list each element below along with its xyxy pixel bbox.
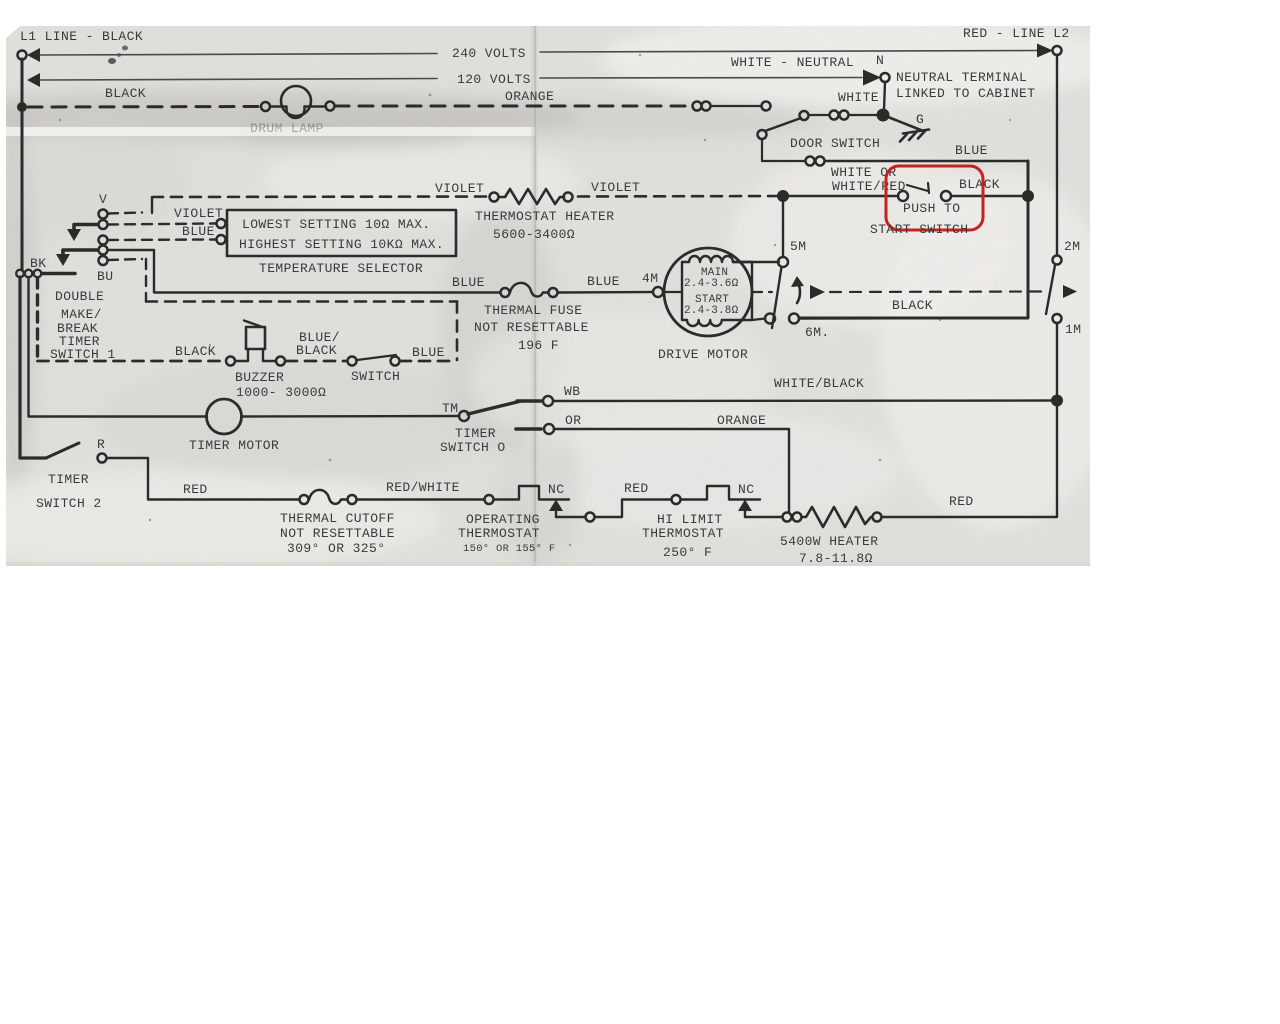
lamp switch contacts [693, 102, 771, 111]
svg-text:5400W HEATER: 5400W HEATER [780, 534, 878, 549]
svg-text:VIOLET: VIOLET [591, 180, 640, 195]
wire with NC step 2 [681, 486, 760, 500]
svg-text:2M: 2M [1064, 239, 1080, 254]
wire violet dashed right [578, 195, 777, 198]
selector contact V [99, 210, 108, 219]
svg-text:MAKE/: MAKE/ [61, 307, 102, 322]
label NEUTRAL TERMINAL LINKED TO CABINET [896, 70, 1035, 101]
wire heater to L2 rail [882, 323, 1057, 517]
ground G [883, 112, 929, 142]
node L2 terminal with arrow [1037, 44, 1062, 58]
contact WB stub [517, 396, 553, 406]
BK terminals [16, 270, 41, 278]
svg-text:RED: RED [183, 482, 208, 497]
wire dashed box top edge [146, 300, 457, 303]
wire dashed switch to box corner [400, 360, 457, 363]
svg-text:RED: RED [949, 494, 974, 509]
label HI LIMIT THERMOSTAT 250 F [642, 512, 724, 560]
node L1 terminal [18, 48, 41, 62]
svg-text:4M: 4M [642, 271, 658, 286]
svg-text:V: V [99, 192, 107, 207]
svg-text:HIGHEST SETTING 10KΩ MAX.: HIGHEST SETTING 10KΩ MAX. [239, 237, 444, 252]
wire black dashed to drum lamp [28, 105, 262, 109]
svg-text:BLACK: BLACK [892, 298, 933, 313]
SCHEMATIC [17, 26, 1070, 318]
svg-text:HI LIMIT: HI LIMIT [657, 512, 723, 527]
wire switch to blue rail [951, 195, 1022, 197]
svg-text:RED - LINE L2: RED - LINE L2 [963, 26, 1070, 41]
svg-text:5M: 5M [790, 239, 806, 254]
svg-text:NOT RESETTABLE: NOT RESETTABLE [280, 526, 395, 541]
label THERMAL CUTOFF NOT RESETTABLE 309 OR 325 [280, 511, 395, 556]
wire rail from BK circle 1 down [20, 277, 46, 458]
svg-text:WHITE - NEUTRAL: WHITE - NEUTRAL [731, 55, 854, 70]
wire dashed blue to selector box bottom [108, 238, 215, 241]
svg-text:WHITE/RED: WHITE/RED [832, 179, 906, 194]
thermal cutoff [300, 490, 357, 504]
wire dashed black motor line [753, 285, 1077, 299]
svg-text:L1 LINE - BLACK: L1 LINE - BLACK [20, 29, 143, 44]
wire main winding to 5M [733, 261, 779, 263]
wire orange dashed [335, 105, 692, 108]
contact OR stub [516, 424, 554, 434]
operating thermostat contact [485, 495, 494, 504]
selector contact 4 [99, 246, 108, 255]
temperature selector box [227, 210, 456, 256]
wire with NC step [494, 486, 569, 500]
wire V dashed to violet line [108, 198, 152, 214]
svg-text:250° F: 250° F [663, 545, 712, 560]
svg-text:TIMER: TIMER [48, 472, 89, 487]
svg-text:BLUE: BLUE [412, 345, 445, 360]
junction on L1 rail [17, 102, 27, 112]
svg-text:NC: NC [548, 482, 564, 497]
selector wiper arrow 1 [67, 225, 98, 242]
svg-text:RED/WHITE: RED/WHITE [386, 480, 460, 495]
svg-text:BU: BU [97, 269, 113, 284]
svg-text:ORANGE: ORANGE [717, 413, 766, 428]
thermal fuse [501, 283, 558, 297]
svg-text:OPERATING: OPERATING [466, 512, 540, 527]
contact 6M right [789, 314, 799, 324]
wire R to red line [107, 458, 299, 500]
junction WB rail [1051, 395, 1063, 407]
svg-text:NOT RESETTABLE: NOT RESETTABLE [474, 320, 589, 335]
wire to push-to-start [789, 195, 898, 197]
svg-text:BLACK: BLACK [959, 177, 1000, 192]
wire to heater [745, 516, 782, 518]
wire violet dashed top [152, 195, 488, 198]
svg-text:BLUE: BLUE [452, 275, 485, 290]
svg-text:BUZZER: BUZZER [235, 370, 284, 385]
red highlight box PUSH TO START [886, 166, 983, 230]
svg-text:THERMAL CUTOFF: THERMAL CUTOFF [280, 511, 395, 526]
hi limit left contact [586, 513, 595, 522]
label TIMER SWITCH 2 [36, 472, 102, 511]
svg-text:PUSH TO: PUSH TO [903, 201, 960, 216]
switch in dashed row [348, 355, 400, 366]
arrow 120V left [27, 73, 40, 87]
selector contact 3 [99, 236, 108, 245]
curved rotation arrow [791, 276, 804, 303]
wire hi limit step up [595, 500, 671, 518]
door switch arm [765, 118, 801, 131]
contact 2M [1053, 256, 1062, 265]
resistor 5400W heater [802, 507, 871, 527]
wire blue fuse to 4M [558, 291, 653, 294]
junction white/red node [777, 190, 789, 202]
junction blue rail [1022, 190, 1034, 202]
svg-text:THERMAL FUSE: THERMAL FUSE [484, 303, 582, 318]
heater right terminal [873, 513, 882, 522]
resistor thermostat heater [490, 189, 573, 204]
label THERMAL FUSE NOT RESETTABLE 196 F [474, 303, 589, 353]
svg-text:VIOLET: VIOLET [435, 181, 484, 196]
wire 240 volt line [40, 51, 1038, 56]
label MAIN 2.4-3.6 [684, 267, 739, 290]
label 5400W HEATER 7.8-11.8 [780, 534, 878, 566]
svg-text:BLACK: BLACK [105, 86, 146, 101]
svg-text:LOWEST SETTING 10Ω MAX.: LOWEST SETTING 10Ω MAX. [242, 217, 431, 232]
svg-text:309° OR 325°: 309° OR 325° [287, 541, 385, 556]
wire blue rail down to 6M [799, 161, 1028, 318]
svg-text:THERMOSTAT: THERMOSTAT [642, 526, 724, 541]
drum lamp [261, 86, 335, 118]
label BLUE/BLACK [296, 330, 340, 358]
svg-text:DOUBLE: DOUBLE [55, 289, 104, 304]
label START 2.4-3.8 [684, 294, 739, 317]
svg-text:BLUE: BLUE [182, 224, 215, 239]
wire rail from BK circle 2 down [29, 277, 208, 417]
wire 4M into motor [663, 291, 682, 293]
switch arm 2M-1M [1046, 265, 1055, 314]
wire dashed buzzer to switch [286, 360, 347, 363]
svg-text:R: R [97, 437, 105, 452]
wire start winding to 6M contact [752, 319, 765, 321]
wire N to junction [884, 82, 885, 110]
svg-text:6M.: 6M. [805, 325, 830, 340]
svg-text:120 VOLTS: 120 VOLTS [457, 72, 531, 87]
svg-text:1000- 3000Ω: 1000- 3000Ω [236, 385, 326, 400]
svg-text:BLACK: BLACK [296, 343, 337, 358]
svg-text:NC: NC [738, 482, 754, 497]
centrifugal switch arm [772, 267, 782, 328]
svg-text:SWITCH: SWITCH [351, 369, 400, 384]
wire dashed box right edge [456, 302, 459, 361]
selector box terminal top [217, 219, 226, 228]
svg-text:TIMER: TIMER [455, 426, 496, 441]
label TIMER SWITCH O [440, 426, 506, 455]
svg-text:OR: OR [565, 413, 581, 428]
svg-text:2.4-3.6Ω: 2.4-3.6Ω [684, 278, 739, 290]
svg-text:WB: WB [564, 384, 580, 399]
timer motor [207, 399, 242, 434]
svg-text:SWITCH O: SWITCH O [440, 440, 506, 455]
svg-text:DOOR SWITCH: DOOR SWITCH [790, 136, 880, 151]
motor windings box [682, 256, 752, 326]
selector contact 2 [99, 220, 108, 229]
svg-text:BLACK: BLACK [175, 344, 216, 359]
svg-text:THERMOSTAT HEATER: THERMOSTAT HEATER [475, 209, 614, 224]
contact 5M [778, 257, 788, 267]
wire white to door switch [800, 111, 878, 121]
wire blue from selector to thermal fuse [108, 250, 500, 293]
svg-text:196 F: 196 F [518, 338, 559, 353]
wire 120 volt line [40, 78, 862, 81]
hi limit contact [672, 495, 681, 504]
wire bold dashed left drop [36, 278, 39, 360]
timer switch O arm [468, 401, 521, 414]
wire to hi limit [556, 516, 585, 518]
wire BK stub [42, 272, 75, 276]
wire dashed box left bracket [145, 259, 147, 301]
svg-text:BLUE: BLUE [955, 143, 988, 158]
label OPERATING THERMOSTAT 150 OR 155 F [458, 512, 555, 555]
label DOUBLE MAKE/BREAK TIMER SWITCH 1 [50, 289, 116, 362]
wire timer motor to TM [242, 415, 460, 418]
svg-text:BLUE: BLUE [587, 274, 620, 289]
svg-text:NEUTRAL TERMINAL: NEUTRAL TERMINAL [896, 70, 1027, 85]
wire door switch bottom with contacts [762, 157, 1028, 166]
wire L2 rail upper [1056, 55, 1058, 255]
svg-text:WHITE/BLACK: WHITE/BLACK [774, 376, 864, 391]
svg-text:G: G [916, 112, 924, 127]
timer switch 2 arm [46, 443, 79, 458]
svg-text:N: N [876, 53, 884, 68]
selector wiper arrow 2 [56, 250, 97, 266]
wire door switch drop [761, 139, 763, 161]
terminal 4M [653, 287, 663, 297]
svg-text:WHITE: WHITE [838, 90, 879, 105]
svg-text:TM: TM [442, 401, 458, 416]
contact TM [459, 411, 469, 421]
selector contact 5 [99, 256, 108, 265]
svg-text:VIOLET: VIOLET [174, 206, 223, 221]
wire orange [555, 429, 789, 513]
svg-text:TEMPERATURE SELECTOR: TEMPERATURE SELECTOR [259, 261, 423, 276]
selector box terminal bottom [217, 235, 226, 244]
wire red/white [357, 498, 484, 500]
door switch pivot [758, 130, 767, 139]
svg-text:START SWITCH: START SWITCH [870, 222, 968, 237]
heater terminals [783, 513, 802, 522]
svg-text:TIMER MOTOR: TIMER MOTOR [189, 438, 279, 453]
svg-text:DRIVE MOTOR: DRIVE MOTOR [658, 347, 748, 362]
svg-text:THERMOSTAT: THERMOSTAT [458, 526, 540, 541]
svg-text:7.8-11.8Ω: 7.8-11.8Ω [799, 551, 873, 566]
svg-text:240 VOLTS: 240 VOLTS [452, 46, 526, 61]
buzzer [226, 321, 285, 366]
node N neutral terminal [863, 53, 890, 86]
svg-text:5600-3400Ω: 5600-3400Ω [493, 227, 575, 242]
svg-text:ORANGE: ORANGE [505, 89, 554, 104]
wire dashed buzzer row left [38, 360, 227, 363]
contact 6M left [765, 314, 775, 324]
contact 1M [1053, 314, 1062, 323]
drive motor outline [664, 248, 752, 336]
wire 5M drop from junction [782, 202, 784, 257]
wire dashed from contact 5 [108, 259, 142, 260]
svg-text:150° OR 155° F: 150° OR 155° F [463, 543, 555, 555]
svg-text:DRUM LAMP: DRUM LAMP [250, 121, 324, 136]
svg-text:1M: 1M [1065, 322, 1081, 337]
contact R [98, 454, 107, 463]
NC arrow hi limit [738, 500, 752, 518]
svg-text:SWITCH 2: SWITCH 2 [36, 496, 102, 511]
push to start switch [898, 183, 951, 201]
label BUZZER 1000-3000 [235, 370, 326, 400]
wire L1 left rail [21, 59, 24, 270]
svg-text:LINKED TO CABINET: LINKED TO CABINET [896, 86, 1035, 101]
wire 6M to blue rail [799, 317, 1026, 320]
NC arrow operating thermostat [549, 500, 563, 518]
svg-text:RED: RED [624, 481, 649, 496]
wire WB white/black [554, 399, 1055, 402]
svg-text:2.4-3.8Ω: 2.4-3.8Ω [684, 305, 739, 317]
junction white node [877, 109, 890, 122]
wire dashed violet to selector box top [108, 224, 215, 225]
